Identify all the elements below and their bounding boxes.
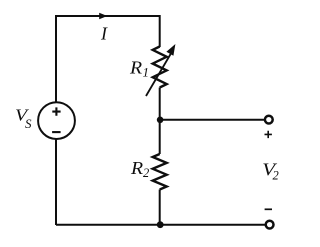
wire R2 to node B bbox=[159, 190, 161, 226]
minus mark inside source bbox=[52, 131, 61, 133]
svg-text:2: 2 bbox=[143, 166, 149, 180]
svg-text:2: 2 bbox=[273, 168, 279, 182]
svg-text:R: R bbox=[130, 159, 144, 179]
wire left upper bbox=[55, 15, 57, 102]
resistor R1 adjust arrow bbox=[146, 44, 175, 96]
svg-text:R: R bbox=[129, 58, 143, 78]
wire left lower bbox=[55, 139, 57, 225]
label R2 bbox=[130, 159, 149, 180]
wire R1 to node A bbox=[159, 88, 161, 121]
resistor R2 zigzag bbox=[153, 154, 167, 190]
node A junction dot bbox=[157, 117, 164, 124]
label VS bbox=[15, 107, 32, 131]
label R1 bbox=[129, 58, 149, 79]
terminal + output (open circle) bbox=[265, 116, 273, 124]
plus polarity mark output bbox=[265, 131, 272, 138]
wire middle output bbox=[160, 119, 264, 121]
minus polarity mark output bbox=[265, 208, 272, 210]
node B junction dot bbox=[157, 221, 164, 228]
terminal - output (open circle) bbox=[266, 221, 274, 229]
resistor R1 (variable) zigzag bbox=[153, 47, 167, 88]
plus mark inside source bbox=[52, 107, 60, 115]
wire node A to R2 bbox=[159, 120, 161, 154]
wire right branch upper bbox=[159, 15, 161, 47]
voltage source VS circle bbox=[38, 102, 75, 139]
label V2 bbox=[262, 161, 279, 183]
current arrow I bbox=[99, 13, 107, 19]
wire top horizontal bbox=[56, 15, 160, 17]
wire bottom horizontal bbox=[56, 224, 265, 226]
svg-text:S: S bbox=[25, 116, 32, 131]
svg-text:I: I bbox=[100, 24, 108, 44]
svg-text:1: 1 bbox=[143, 64, 150, 79]
